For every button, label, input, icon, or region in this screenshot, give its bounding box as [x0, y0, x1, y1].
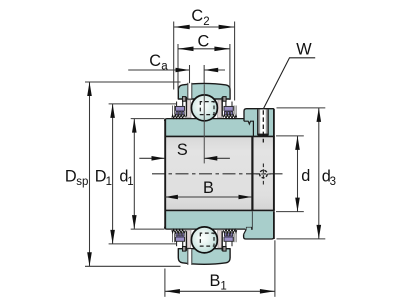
- dimension B1: [165, 240, 275, 296]
- seal bottom-left: [172, 230, 191, 252]
- svg-text:W: W: [296, 40, 312, 58]
- inner ring right face line: [251, 136, 253, 210]
- dimension Ca: [128, 65, 225, 83]
- locking collar top section: [244, 109, 274, 137]
- dimension d: [276, 136, 304, 212]
- svg-text:C: C: [191, 7, 203, 25]
- outer ring bottom: [178, 249, 230, 265]
- centerline shaft axis: [152, 173, 285, 175]
- seal bottom-right: [218, 230, 237, 252]
- shaft edges: [165, 135, 275, 137]
- svg-text:3: 3: [330, 176, 336, 188]
- svg-text:B: B: [210, 272, 221, 290]
- grub screw bore walls: [258, 109, 260, 134]
- svg-text:C: C: [198, 33, 210, 51]
- ball center plane line top: [203, 84, 205, 163]
- dimension C2: [174, 22, 235, 101]
- seal top-left: [172, 97, 191, 119]
- ball top: [191, 95, 217, 121]
- label W with leader: [263, 58, 315, 109]
- svg-text:C: C: [149, 52, 161, 70]
- dimension d1: [131, 119, 165, 230]
- svg-text:B: B: [203, 179, 214, 197]
- dimension Dsp: [85, 82, 181, 266]
- inner ring top band: [165, 119, 254, 137]
- collar top outline: [244, 109, 274, 122]
- shaft: [165, 136, 275, 210]
- svg-text:S: S: [177, 141, 188, 159]
- svg-text:sp: sp: [76, 176, 88, 188]
- svg-text:D: D: [65, 167, 77, 185]
- dimension S: [139, 157, 230, 159]
- seal top-right: [218, 97, 237, 119]
- ball bottom: [191, 227, 217, 253]
- svg-text:2: 2: [203, 16, 209, 28]
- dimension d3: [277, 108, 326, 239]
- dimension B: [165, 196, 252, 198]
- dimension D1: [109, 104, 177, 244]
- grub screw axis dashed: [262, 110, 264, 142]
- svg-text:a: a: [161, 61, 168, 73]
- svg-text:1: 1: [106, 176, 112, 188]
- outer ring top: [178, 83, 230, 99]
- svg-text:d: d: [301, 167, 310, 185]
- screw position symbol: [262, 164, 264, 185]
- inner ring bottom band: [165, 211, 252, 229]
- dimension C: [178, 44, 230, 100]
- locking collar bottom section: [244, 211, 274, 239]
- svg-text:1: 1: [220, 281, 226, 293]
- svg-text:1: 1: [127, 176, 133, 188]
